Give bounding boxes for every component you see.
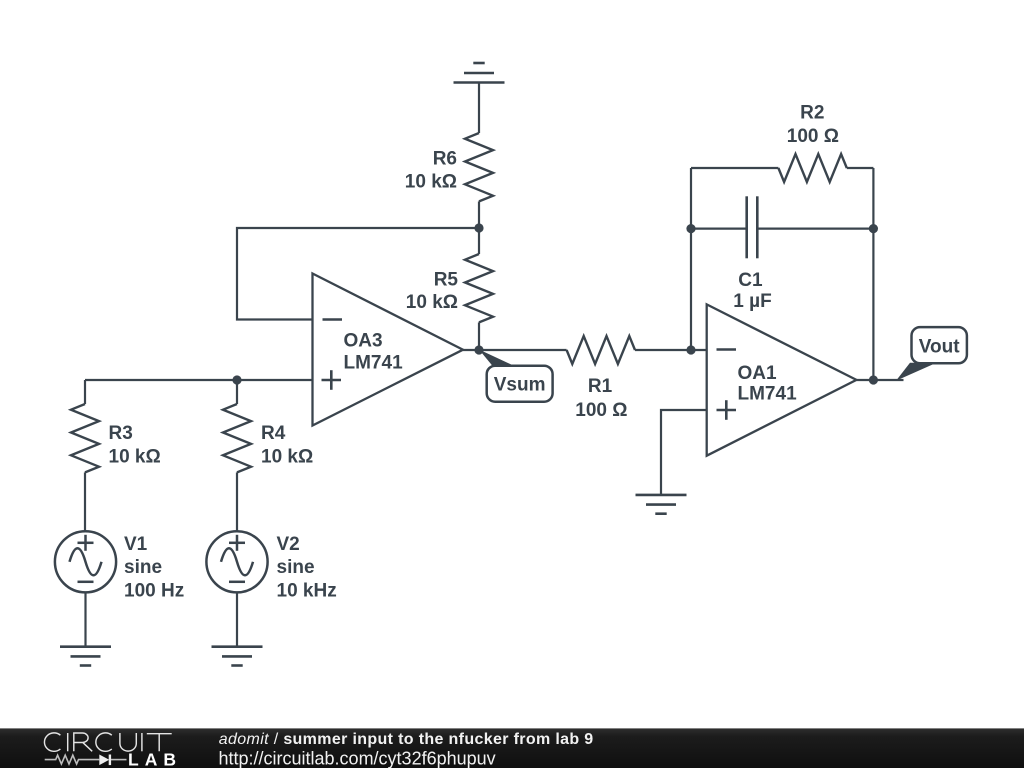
svg-text:OA1: OA1 bbox=[738, 363, 778, 384]
wire R6 to R5 (through node) bbox=[478, 201, 480, 254]
node junction R1/C1-R2 branch bbox=[686, 345, 695, 354]
op-amp OA1 LM741 bbox=[707, 304, 857, 455]
svg-text:Vout: Vout bbox=[919, 337, 960, 358]
svg-text:R6: R6 bbox=[433, 149, 457, 170]
svg-text:10 kΩ: 10 kΩ bbox=[109, 447, 161, 468]
svg-text:adomit / summer input to the n: adomit / summer input to the nfucker fro… bbox=[219, 731, 594, 748]
wire R3 to V1 bbox=[84, 472, 86, 531]
wire R5 to output node bbox=[478, 322, 480, 350]
wire ground to R6 bbox=[478, 83, 480, 134]
svg-text:sine: sine bbox=[124, 557, 162, 578]
wire to R4 bbox=[236, 380, 238, 404]
op-amp OA3 LM741 bbox=[313, 274, 464, 426]
wire R2 top left bbox=[691, 167, 778, 169]
ground (below OA1 +input) bbox=[636, 495, 687, 514]
label C1 1 µF bbox=[733, 270, 771, 312]
svg-text:C1: C1 bbox=[738, 270, 763, 291]
wire OA1 output bbox=[856, 379, 903, 381]
label R4 10 kΩ bbox=[261, 423, 313, 468]
svg-text:Vsum: Vsum bbox=[494, 375, 546, 396]
svg-text:R3: R3 bbox=[109, 423, 133, 444]
svg-text:100 Hz: 100 Hz bbox=[124, 581, 184, 602]
wire OA1 non-inverting input to ground bbox=[661, 410, 707, 495]
voltage source V2 (sine) bbox=[206, 531, 267, 592]
node junction C1 left bbox=[686, 224, 695, 233]
svg-text:10 kΩ: 10 kΩ bbox=[406, 292, 458, 313]
node Vout junction bbox=[869, 375, 878, 384]
svg-text:R5: R5 bbox=[434, 270, 459, 291]
label R1 100 Ω bbox=[575, 376, 627, 421]
svg-text:LM741: LM741 bbox=[344, 353, 404, 374]
wire R4 to V2 bbox=[236, 472, 238, 531]
wire C1 left lead bbox=[691, 228, 747, 230]
label V1 sine 100 Hz bbox=[124, 534, 184, 602]
wire non-inverting input rail bbox=[85, 379, 313, 381]
svg-text:V2: V2 bbox=[277, 534, 300, 555]
svg-text:1 µF: 1 µF bbox=[733, 291, 771, 312]
wire V1 to ground bbox=[84, 592, 86, 646]
svg-text:10 kΩ: 10 kΩ bbox=[405, 172, 457, 193]
logo resistor-diode art bbox=[45, 755, 127, 766]
resistor R2 bbox=[778, 154, 846, 182]
wire R2 top right bbox=[847, 167, 874, 169]
resistor R6 bbox=[465, 133, 493, 201]
svg-text:R4: R4 bbox=[261, 423, 286, 444]
resistor R4 bbox=[223, 404, 251, 472]
voltage source V1 (sine) bbox=[55, 531, 116, 592]
wire left feedback riser bbox=[690, 168, 692, 350]
node junction R4/+input bbox=[232, 375, 241, 384]
svg-text:LAB: LAB bbox=[128, 749, 182, 768]
wire R1 to OA1 inverting input bbox=[635, 349, 707, 351]
svg-text:10 kHz: 10 kHz bbox=[277, 581, 337, 602]
node junction R6/R5/feedback bbox=[474, 223, 483, 232]
label R6 10 kΩ bbox=[405, 149, 457, 193]
wire feedback horizontal to OA3 inverting input bbox=[237, 228, 479, 320]
svg-text:http://circuitlab.com/cyt32f6p: http://circuitlab.com/cyt32f6phupuv bbox=[219, 749, 496, 768]
ground (top, above R6) bbox=[454, 63, 505, 83]
svg-text:sine: sine bbox=[277, 557, 315, 578]
resistor R1 bbox=[567, 336, 635, 364]
svg-text:100 Ω: 100 Ω bbox=[575, 400, 627, 421]
wire C1 right lead bbox=[757, 228, 873, 230]
resistor R3 bbox=[71, 404, 99, 472]
label R2 100 Ω bbox=[787, 102, 839, 146]
svg-text:10 kΩ: 10 kΩ bbox=[261, 447, 313, 468]
node junction C1 right bbox=[869, 224, 878, 233]
label R5 10 kΩ bbox=[406, 270, 459, 314]
svg-text:OA3: OA3 bbox=[344, 331, 383, 352]
ground (below V2) bbox=[212, 647, 263, 666]
label R3 10 kΩ bbox=[109, 423, 161, 468]
svg-text:LM741: LM741 bbox=[738, 384, 798, 405]
wire V2 to ground bbox=[236, 592, 238, 646]
logo CIRCUIT (hand drawn thin letters) bbox=[44, 733, 171, 751]
ground (below V1) bbox=[60, 647, 111, 666]
svg-text:100 Ω: 100 Ω bbox=[787, 126, 839, 147]
svg-text:V1: V1 bbox=[124, 534, 148, 555]
net flag Vout bbox=[896, 327, 967, 381]
svg-text:R2: R2 bbox=[800, 102, 824, 123]
node Vsum junction bbox=[474, 345, 483, 354]
label V2 sine 10 kHz bbox=[277, 534, 337, 602]
wire OA3 output to R1 bbox=[463, 349, 567, 351]
wire right feedback riser bbox=[872, 168, 874, 380]
net flag Vsum bbox=[479, 350, 553, 402]
capacitor C1 bbox=[747, 196, 758, 258]
wire to R3 bbox=[84, 380, 86, 404]
resistor R5 bbox=[465, 254, 493, 322]
svg-text:R1: R1 bbox=[588, 376, 613, 397]
